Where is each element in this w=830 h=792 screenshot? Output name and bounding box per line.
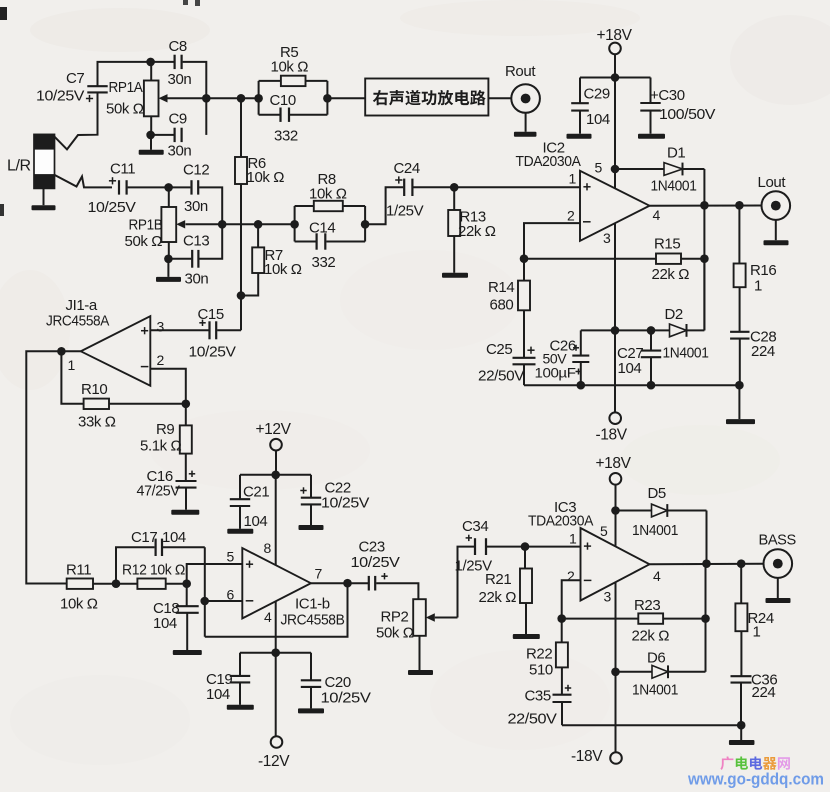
svg-text:10k Ω: 10k Ω [271,59,309,76]
label C27 [617,345,643,377]
node RP1B wiper right junction [218,220,227,229]
label C28 [750,329,776,361]
op-amp IC1-b JRC4558B [242,548,311,618]
wire: -12V rail [240,652,311,654]
capacitor C15 [199,320,216,340]
wire: C24 to IC2 pin1 [413,186,580,188]
label R15 [652,236,690,284]
wire C8 right [183,62,207,98]
label R6 [247,155,285,186]
label -18V (IC3) [571,748,603,765]
wire: feedback line R23 [562,618,639,620]
svg-text:50k Ω: 50k Ω [125,233,163,250]
label C14 [309,220,335,272]
R8C14 parallel frame [295,206,366,242]
wire: rail to ground (IC3) [740,725,742,740]
terminal +12V [270,439,282,451]
node D1 anode junction [611,165,620,174]
node IC3 feedback junction [557,614,566,623]
svg-text:10/25V: 10/25V [189,344,236,361]
wire: pin5 connect [187,564,243,584]
resistor R22 [556,619,568,695]
svg-text:5: 5 [600,523,608,539]
diode D2 [651,259,704,337]
node feedback junction (IC2) [520,254,529,263]
label C21 [243,484,269,531]
svg-text:JI1-a: JI1-a [66,297,98,314]
label +12V [256,421,292,438]
svg-text:JRC4558A: JRC4558A [46,313,109,330]
wire C13 left [168,258,191,260]
wire: input bottom contact [54,175,112,188]
node C11 junction [164,183,173,192]
svg-text:D6: D6 [647,650,665,667]
node R13 top junction [450,183,459,192]
capacitor C23 [369,573,388,591]
wire: IC3 pin3 vertical [615,582,617,752]
wire: +12V to rail [275,450,277,474]
RP2 wiper arrow [426,613,458,621]
node +18V rail junction [611,73,620,82]
label C34 [455,518,493,575]
svg-text:+18V: +18V [596,455,632,472]
svg-text:1N4001: 1N4001 [632,682,678,699]
resistor R16 [734,205,746,331]
capacitor C30 [640,78,660,134]
svg-text:C25: C25 [486,341,512,358]
svg-text:1/25V: 1/25V [386,203,424,220]
svg-text:C17: C17 [131,529,157,546]
node A junction [146,58,155,67]
label C16 [137,468,180,500]
svg-text:2: 2 [157,352,165,368]
wire: D2 line [581,329,651,331]
wire: output to R11 long [26,351,66,583]
wire: C17 to pin6 node [204,547,206,636]
ground below rail (IC3) [729,740,755,745]
svg-text:+12V: +12V [256,421,292,438]
node output-R16 junction [735,201,744,210]
node output-D5 junction [702,559,711,568]
node C26 bottom junction [577,381,586,390]
ground below RP1A [139,135,164,155]
svg-text:Rout: Rout [505,63,536,80]
ground below C16 [171,488,199,515]
label R16 [750,262,776,295]
svg-text:R21: R21 [485,571,511,588]
capacitor C17 bypass [116,539,205,584]
wire: input top contact to C7 [54,92,98,149]
label C10 [270,92,298,145]
ground below C19 [227,705,254,710]
capacitor C14 [317,233,326,249]
node R8C14 right junction [361,220,370,229]
label C9 [168,111,192,160]
label C17 [131,529,186,546]
svg-text:RP1B: RP1B [129,217,163,234]
node RP1B bottom junction [164,254,173,263]
wire: output to D2 vertical [703,205,705,330]
svg-text:R11: R11 [66,562,91,579]
svg-text:10/25V: 10/25V [321,690,371,707]
wire: +12V rail [240,474,311,476]
node output-C23 junction [343,579,352,588]
pin number 4 (IC1-b) [264,609,272,625]
capacitor C16 [176,471,197,488]
svg-text:R22: R22 [526,646,552,663]
capacitor C10 [281,108,290,122]
resistor R15 [656,254,681,264]
ground below Lout [764,220,789,245]
node rail-ground junction (IC3) [737,721,746,730]
svg-text:C14: C14 [309,220,335,237]
label C7 value [36,70,84,105]
svg-text:332: 332 [312,254,336,271]
node RP1A wiper junction [202,94,211,103]
node R21 top junction [521,542,530,551]
svg-text:1N4001: 1N4001 [651,178,697,195]
svg-text:3: 3 [603,230,611,246]
ground below C18 [173,650,202,655]
svg-text:R15: R15 [654,236,680,253]
svg-text:R10: R10 [81,381,107,398]
label JI1-a [46,297,109,330]
svg-text:104: 104 [244,513,268,530]
capacitor C28 [730,332,749,385]
svg-text:C12: C12 [183,162,209,179]
svg-text:332: 332 [274,128,298,145]
svg-text:R24: R24 [748,610,774,627]
label D1 [651,145,697,195]
label C26 [535,338,582,381]
svg-text:10k Ω: 10k Ω [264,261,302,278]
wire: C23 to RP2 [376,583,418,599]
node R7 top junction [254,220,263,229]
svg-text:R23: R23 [634,597,660,614]
ground below RP2 [408,670,433,675]
svg-text:224: 224 [752,684,776,701]
label Lout [758,174,787,191]
svg-text:33k Ω: 33k Ω [78,414,116,431]
wire: JI1a output stub [61,350,80,352]
svg-text:C21: C21 [243,484,269,501]
scan speck left edge [0,204,4,216]
label Rout [505,63,536,80]
svg-text:C13: C13 [183,233,209,250]
svg-text:D5: D5 [648,485,666,502]
wire: IC1b output [311,582,368,584]
svg-text:22/50V: 22/50V [478,368,524,385]
resistor R9 [180,404,192,481]
svg-text:30n: 30n [168,71,192,88]
svg-text:10k Ω: 10k Ω [60,596,98,613]
svg-text:1N4001: 1N4001 [632,522,678,539]
resistor R24 [735,564,747,677]
label R21 [479,571,517,606]
svg-text:C7: C7 [66,70,84,87]
label C8 [168,38,192,88]
ground below C29 [567,134,592,139]
wire: C25 to minus rail [523,364,525,385]
svg-text:C24: C24 [394,160,420,177]
svg-text:10k Ω: 10k Ω [247,169,285,186]
svg-text:22/50V: 22/50V [508,711,557,728]
svg-text:C15: C15 [198,306,224,323]
pin number 4 (IC3) [653,568,661,584]
node R7-C15 junction [237,291,246,300]
svg-text:1: 1 [569,171,577,187]
node +12V rail junction [271,471,280,480]
ground below C28 rail [726,419,755,424]
svg-text:4: 4 [653,207,661,223]
watermark site name [720,756,790,770]
wire: minus rail (IC2) [524,384,739,386]
resistor R7 [241,224,264,295]
wire: IC3 pin5 vertical [615,511,617,547]
svg-text:C34: C34 [462,518,488,535]
wire: wiper to R5C10 node [206,97,258,99]
capacitor C36 [731,676,752,725]
label IC3 [528,499,593,530]
wire: rail to ground (IC2) [738,385,740,419]
svg-text:www.go-gddq.com: www.go-gddq.com [687,771,824,789]
label R13 [458,209,496,240]
node IC2 pin3 - D2 junction [611,326,620,335]
svg-text:10/25V: 10/25V [321,495,369,512]
node R5C10 left junction [254,94,263,103]
wire: to -12V terminal [275,653,277,737]
wire: pin5 supply vertical [614,78,616,189]
svg-text:10/25V: 10/25V [88,199,136,216]
svg-text:5: 5 [595,160,603,176]
R5C10 parallel frame [259,81,328,115]
right channel amp block [365,79,488,116]
wire: pin2 stub [150,369,186,404]
diode D1 [615,163,704,176]
label R14 [488,279,514,314]
ground below C22 [299,525,324,530]
pin number 1 (IC3) [569,531,577,547]
node R15-D2 junction [700,254,709,263]
svg-text:30n: 30n [185,271,209,288]
wire: +18V to D5 node [615,485,617,511]
svg-text:8: 8 [264,540,272,556]
wire: R11 to R12 [93,583,137,585]
capacitor C27 [641,330,661,385]
label -12V [258,753,290,770]
pin number 1 (IC2) [569,171,577,187]
svg-text:10k Ω: 10k Ω [309,186,347,203]
label C19 [206,671,232,703]
svg-text:BASS: BASS [759,533,797,549]
pin number 1 (JI1-a) [68,357,76,373]
capacitor C12 [169,180,199,194]
svg-text:22k Ω: 22k Ω [652,266,690,283]
RP1A wiper arrow [159,94,207,102]
ground below C20 [298,708,324,713]
svg-text:100µF: 100µF [535,365,576,381]
wire: IC2 pin3 vertical [614,223,616,412]
svg-text:RP1A: RP1A [109,79,143,96]
watermark url [687,771,824,789]
capacitor C19 [230,653,250,705]
svg-text:2: 2 [567,208,575,224]
label RP1A [106,79,144,118]
capacitor C13 [192,250,198,268]
wire: output to R10 [61,351,83,404]
svg-text:4: 4 [264,609,272,625]
node R9 top junction [182,400,191,409]
svg-text:C23: C23 [359,539,385,556]
svg-text:D1: D1 [667,145,685,162]
pin number 5 (IC2) [595,160,603,176]
label C20 [321,674,371,707]
node R12-pin5-C18 junction [182,579,191,588]
svg-text:+C30: +C30 [650,87,685,104]
svg-text:C9: C9 [169,111,187,128]
pin number 6 (IC1-b) [227,587,235,603]
pin number 4 (IC2) [653,207,661,223]
potentiometer RP1A [144,62,159,135]
wire: junction down to C9 [205,98,207,135]
wire: pin6 line [205,600,243,602]
label BASS [759,533,797,549]
label R5 [271,44,309,76]
resistor R13 [448,187,460,272]
wire C9 left [151,134,174,136]
svg-text:1: 1 [68,357,76,373]
input jack L/R [34,134,55,188]
label C30 [650,87,715,123]
capacitor C20 [301,653,321,709]
wire: R23 right [663,618,705,620]
node output-R24 junction [737,559,746,568]
wire: C11 to node [128,186,169,188]
svg-text:104: 104 [206,686,230,703]
connector BASS [764,549,793,578]
label C13 [183,233,209,288]
label D5 [632,485,678,539]
label IC2 [516,140,581,171]
terminal -18V (IC2) [609,412,621,424]
potentiometer RP1B [161,187,176,258]
label R12 [122,562,185,579]
svg-text:22k Ω: 22k Ω [479,589,517,606]
label C23 [351,539,400,572]
connector Rout [511,84,540,113]
svg-text:50k Ω: 50k Ω [376,625,414,642]
svg-text:D2: D2 [665,306,683,323]
svg-text:C20: C20 [325,674,351,691]
label RP1B [125,217,163,251]
wire: +18V to rail [614,54,616,78]
svg-text:30n: 30n [168,143,192,160]
svg-text:R16: R16 [750,262,776,279]
svg-text:TDA2030A: TDA2030A [528,513,593,530]
op-amp IC2 TDA2030A [580,171,650,241]
svg-text:1: 1 [754,278,762,295]
pin number 5 (IC3) [600,523,608,539]
potentiometer RP2 [413,599,426,670]
svg-text:2: 2 [567,568,575,584]
svg-text:224: 224 [751,343,775,360]
svg-text:Lout: Lout [758,174,787,191]
svg-text:10/25V: 10/25V [36,88,84,105]
resistor R6 [235,98,247,330]
terminal +18V (IC3) [610,473,622,485]
label L/R input [7,158,31,175]
pin number 3 (IC2) [603,230,611,246]
wire: pin3 to C15 [150,329,208,331]
terminal -18V (IC3) [610,752,622,764]
node C28 bottom junction [735,381,744,390]
svg-text:3: 3 [604,589,612,605]
wire: decoupling rail [580,77,651,79]
RP1B wiper arrow [176,220,222,228]
wire: C7 to node A [98,62,151,86]
label C11 [88,161,136,217]
label R11 [60,562,98,613]
svg-text:-18V: -18V [571,748,603,765]
resistor R21 [520,547,532,634]
pin number 2 (IC2) [567,208,575,224]
label C22 [321,480,369,512]
wire: R10 to pin2 node [109,403,186,405]
label C25 [478,341,524,385]
svg-text:C11: C11 [110,161,135,178]
ground below R21 [513,634,540,639]
node C27 bottom junction [647,381,656,390]
wire: RP1B wiper line [222,223,294,225]
resistor R14 [518,259,530,358]
label IC1-b [281,596,345,629]
wire: IC3 output [650,563,764,566]
wire: to C24 [365,187,403,224]
svg-text:5.1k Ω: 5.1k Ω [140,438,182,455]
node R5C10 right junction [323,94,332,103]
ground below C21 [227,529,253,534]
svg-text:1: 1 [753,624,761,641]
wire C8 left [151,61,174,63]
scan speck top-left [0,7,7,20]
capacitor C18 [176,584,199,650]
svg-text:7: 7 [315,566,323,582]
wire: D1 to output [703,169,705,205]
svg-text:IC1-b: IC1-b [295,596,330,613]
capacitor C8 [175,55,182,69]
diode D5 [616,504,707,517]
capacitor C22 [300,475,321,525]
connector Lout [762,191,791,220]
terminal +18V (IC2) [609,43,621,55]
label C36 [751,672,777,702]
svg-text:R14: R14 [488,279,514,296]
label R24 [748,610,774,641]
ground below RP1B [156,259,181,282]
wire: D5 to output [706,511,708,564]
ground below R13 [442,273,468,278]
node -12V rail junction [271,648,280,657]
pin number 2 (JI1-a) [157,352,165,368]
svg-text:104: 104 [618,360,642,377]
op-amp IC3 TDA2030A [581,528,650,601]
wire: minus rail (IC3) [562,724,741,726]
pin number 8 (IC1-b) [264,540,272,556]
wire: to right-channel box [327,97,365,99]
resistor R23 [638,613,663,623]
node R6 top junction [237,94,246,103]
node D6 anode junction [611,668,620,677]
